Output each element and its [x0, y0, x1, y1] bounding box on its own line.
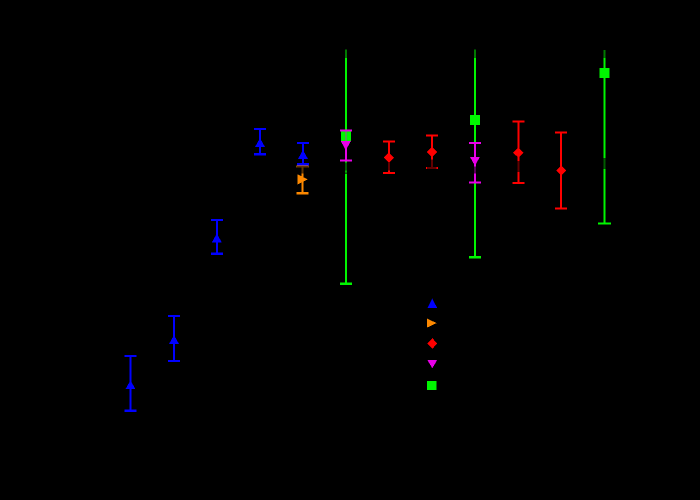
orange errorbar top cap O1 [297, 165, 309, 167]
red diamond marker R4 [556, 166, 566, 176]
magenta errorbar top cap M1 [340, 130, 352, 132]
red errorbar bottom cap R4 [555, 208, 567, 210]
blue errorbar bottom cap B5 [297, 163, 309, 165]
magenta errorbar M2 [474, 143, 476, 182]
legend green square marker [427, 381, 437, 390]
magenta triangle-down marker M2 [470, 157, 480, 166]
blue errorbar top cap B5 [297, 142, 309, 144]
red errorbar top cap R1 [383, 141, 395, 143]
legend red diamond marker [427, 338, 437, 349]
red errorbar top cap R2 [426, 135, 438, 137]
orange errorbar O1 [302, 166, 304, 193]
blue errorbar top cap B4 [254, 128, 266, 130]
blue errorbar top cap B3 [211, 219, 223, 221]
blue errorbar bottom cap B4 [254, 153, 266, 155]
green errorbar bottom cap G1 [340, 282, 352, 284]
red errorbar R1 [388, 142, 390, 173]
red errorbar bottom cap R2 [426, 167, 438, 169]
red diamond marker R1 [384, 153, 394, 163]
blue triangle-up marker B4 [255, 138, 265, 147]
blue errorbar bottom cap B1 [125, 409, 137, 411]
hidden black marker band over green bar G3 [600, 158, 610, 169]
hidden black marker band over red bar R1 [384, 162, 394, 170]
blue errorbar B1 [130, 356, 132, 410]
blue errorbar B5 [302, 143, 304, 165]
blue errorbar bottom cap B3 [211, 253, 223, 255]
red errorbar R3 [517, 121, 519, 183]
green errorbar bottom cap G3 [598, 222, 611, 224]
blue errorbar B2 [173, 316, 175, 361]
blue triangle-up marker B1 [126, 380, 136, 389]
orange triangle-right marker O1 [298, 174, 308, 184]
green errorbar dark top segment point G3 [604, 50, 606, 58]
hidden black marker band over magenta bar M2 [470, 166, 480, 173]
blue errorbar B4 [259, 129, 261, 155]
hidden black marker band over red bar R2 [427, 160, 437, 170]
legend orange triangle-right marker [427, 319, 437, 328]
red diamond marker R3 [513, 148, 523, 158]
red errorbar R4 [560, 133, 562, 209]
blue errorbar B3 [216, 220, 218, 254]
magenta errorbar M1 [345, 131, 347, 161]
blue triangle-up marker B2 [169, 335, 179, 344]
small bright gap in band G1 [345, 170, 347, 172]
green square marker G1 [341, 131, 351, 141]
magenta errorbar bottom cap M2 [469, 181, 481, 183]
legend blue triangle-up marker [428, 298, 438, 308]
faint magenta strip over square G1 [345, 131, 347, 141]
blue errorbar top cap B2 [168, 315, 180, 317]
blue errorbar bottom cap B2 [168, 360, 180, 362]
blue triangle-up marker B5 [298, 150, 308, 159]
green errorbar dark top segment point G2 [474, 50, 476, 59]
magenta triangle-down marker M1 [341, 141, 351, 150]
green errorbar G2 [474, 58, 476, 257]
orange errorbar bottom cap O1 [297, 192, 309, 194]
green errorbar dark top segment point G1 [345, 50, 347, 59]
magenta errorbar top cap M2 [469, 142, 481, 144]
red errorbar R2 [431, 136, 433, 169]
blue errorbar top cap B1 [125, 355, 137, 357]
green square marker G3 [600, 68, 610, 78]
magenta errorbar bottom cap M1 [340, 160, 352, 162]
blue triangle-up marker B3 [212, 234, 222, 243]
red errorbar bottom cap R1 [383, 172, 395, 174]
green square marker G2 [470, 115, 480, 125]
legend magenta triangle-down marker [427, 360, 437, 369]
red errorbar bottom cap R3 [512, 182, 524, 184]
red diamond marker R2 [427, 147, 437, 157]
green errorbar G3 [604, 58, 606, 224]
green errorbar G1 [345, 58, 347, 284]
hidden black marker band over orange bar O1 [297, 166, 308, 174]
red errorbar top cap R3 [512, 120, 524, 122]
hidden black marker band over red bar R3 [514, 161, 524, 172]
hidden black marker band over green bar G1 [341, 162, 351, 173]
red errorbar top cap R4 [555, 132, 567, 134]
green errorbar bottom cap G2 [469, 256, 481, 258]
